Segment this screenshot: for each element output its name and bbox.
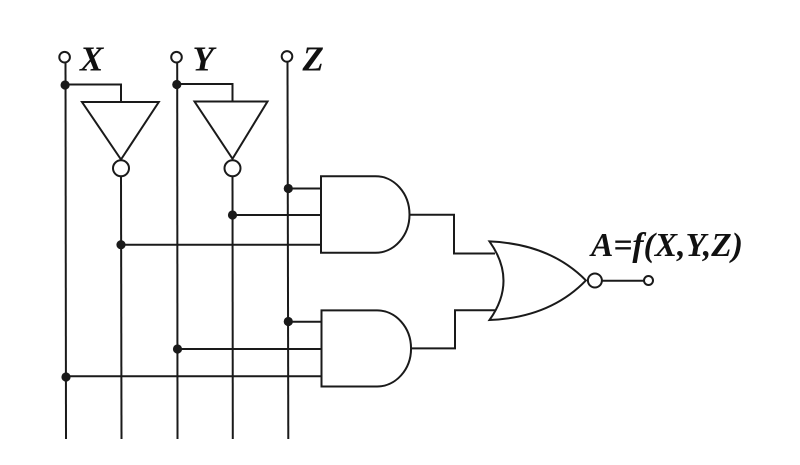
wire Y vertical [176, 63, 178, 440]
wire X' vertical [120, 177, 123, 440]
wire X vertical [65, 63, 68, 440]
AND gate 1 [321, 176, 410, 253]
node X' to AND1 [116, 240, 125, 249]
wire Y tap to inverter U2 input [177, 84, 233, 101]
input terminal X [59, 52, 70, 63]
svg-text:Y: Y [193, 40, 218, 79]
svg-text:A=f(X,Y,Z): A=f(X,Y,Z) [589, 227, 743, 264]
wire X tap to inverter U1 input [65, 85, 121, 102]
inverter U1 bubble [113, 160, 129, 176]
wire AND1 output to NOR input 1 [410, 215, 496, 254]
node Y to AND2 [173, 344, 182, 353]
wire Y' tap to AND1 input 2 [233, 214, 322, 216]
node X to AND2 [61, 372, 70, 381]
wire Y tap to AND2 input 2 [178, 348, 322, 350]
svg-text:Z: Z [302, 40, 324, 79]
node Z to AND2 [284, 317, 293, 326]
node Y' to AND1 [228, 210, 237, 219]
AND gate 2 [322, 310, 412, 386]
inverter U2 (Y) triangle [195, 102, 268, 159]
inverter U1 (X) triangle [82, 102, 159, 160]
svg-text:X: X [79, 40, 105, 79]
node Y tap to inverter [172, 80, 181, 89]
wire Z vertical [287, 62, 290, 439]
wire AND2 output to NOR input 2 [411, 310, 495, 348]
output terminal A [644, 276, 653, 285]
input terminal Y [171, 52, 182, 63]
node Z to AND1 [284, 184, 293, 193]
wire Y' vertical [232, 177, 234, 440]
inverter U2 bubble [225, 160, 241, 176]
node X tap to inverter [61, 80, 70, 89]
wire Z tap to AND2 input 1 [288, 321, 321, 323]
wire X' tap to AND1 input 3 [121, 244, 321, 246]
input terminal Z [282, 51, 293, 62]
wire Z tap to AND1 input 1 [288, 188, 321, 190]
NOR gate U3 output bubble [588, 274, 602, 288]
wire NOR output [602, 280, 644, 282]
NOR gate U3 body [490, 241, 586, 320]
wire X tap to AND2 input 3 [66, 375, 322, 377]
